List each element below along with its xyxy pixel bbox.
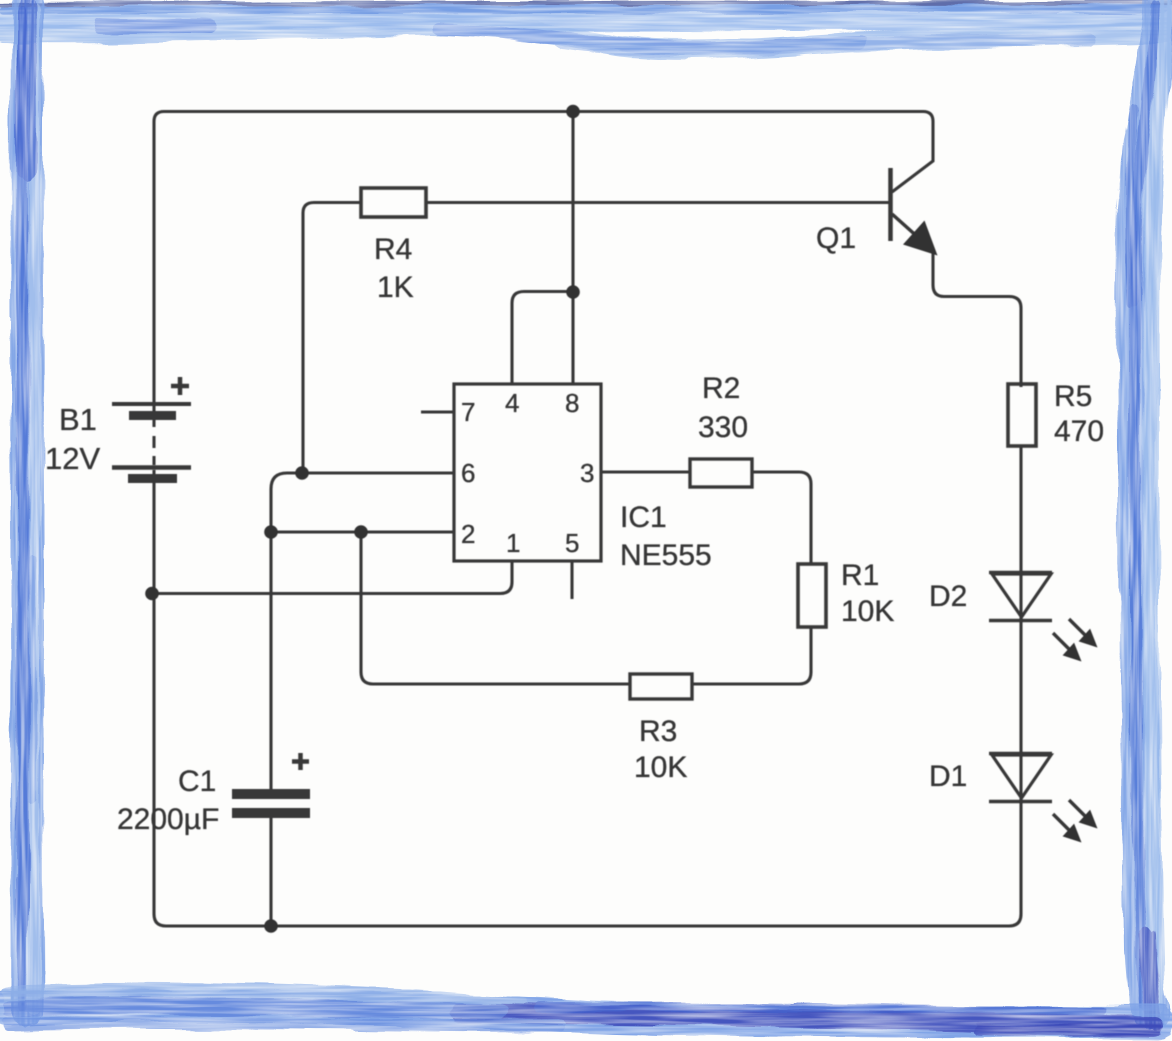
svg-text:1: 1 xyxy=(506,528,520,558)
svg-text:D1: D1 xyxy=(929,760,967,793)
svg-text:4: 4 xyxy=(505,388,519,418)
svg-text:2200µF: 2200µF xyxy=(117,803,219,836)
svg-text:330: 330 xyxy=(698,411,748,444)
svg-text:R1: R1 xyxy=(841,559,879,592)
svg-text:NE555: NE555 xyxy=(620,539,712,572)
svg-text:10K: 10K xyxy=(841,595,894,628)
svg-text:Q1: Q1 xyxy=(816,222,856,255)
svg-text:R3: R3 xyxy=(639,715,677,748)
svg-text:R2: R2 xyxy=(702,372,740,405)
svg-text:10K: 10K xyxy=(634,751,687,784)
svg-text:7: 7 xyxy=(461,397,475,427)
svg-text:5: 5 xyxy=(565,528,579,558)
svg-text:R5: R5 xyxy=(1054,380,1092,413)
svg-text:B1: B1 xyxy=(59,402,97,437)
svg-text:470: 470 xyxy=(1054,415,1104,448)
svg-text:C1: C1 xyxy=(178,765,216,798)
svg-text:6: 6 xyxy=(461,458,475,488)
svg-text:R4: R4 xyxy=(374,233,412,266)
svg-text:3: 3 xyxy=(580,458,594,488)
svg-text:1K: 1K xyxy=(377,271,414,304)
svg-text:D2: D2 xyxy=(929,580,967,613)
svg-text:8: 8 xyxy=(565,388,579,418)
svg-text:2: 2 xyxy=(461,519,475,549)
svg-text:12V: 12V xyxy=(45,441,100,476)
svg-text:IC1: IC1 xyxy=(620,501,667,534)
